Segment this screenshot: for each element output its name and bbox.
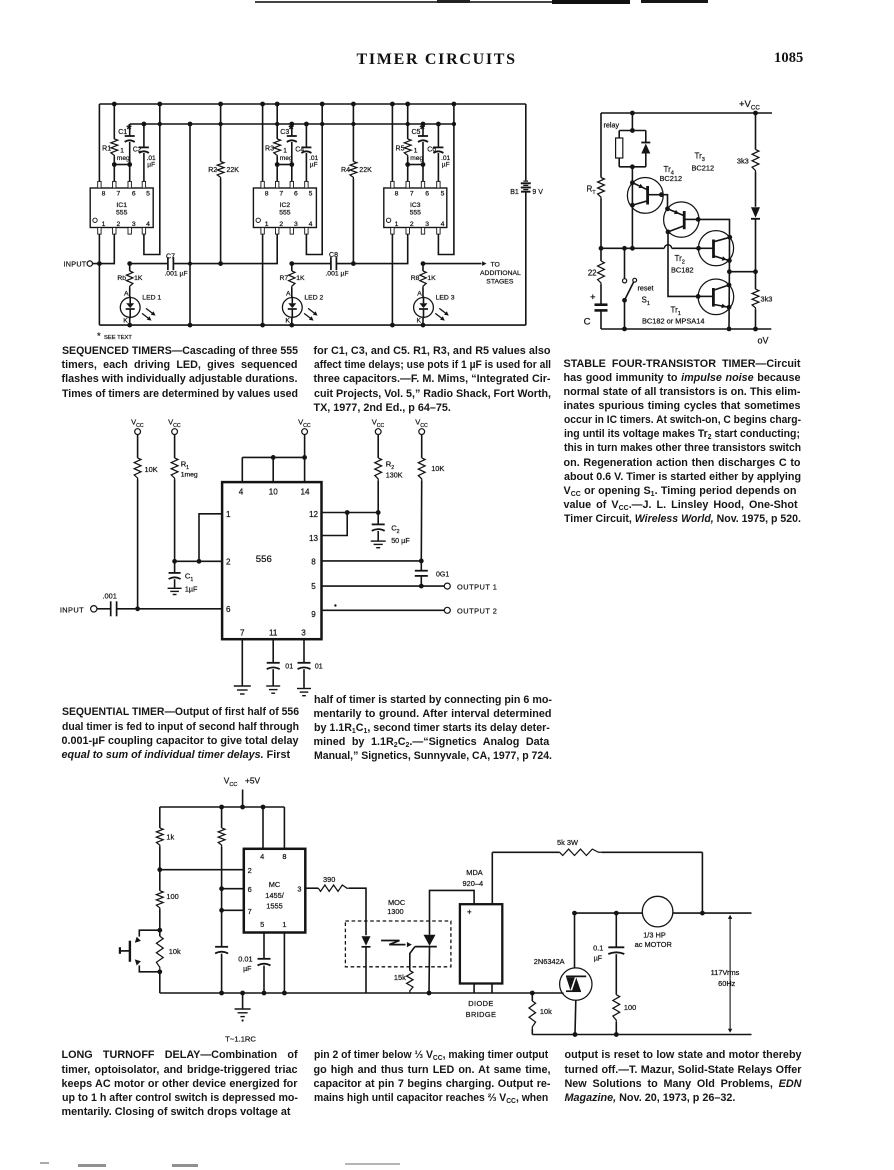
- schematic: sequential timer 556: [50, 410, 520, 700]
- svg-text:LED 1: LED 1: [142, 294, 161, 301]
- capacitor C6 .01 uF: [437, 124, 439, 147]
- wire output to additional stages: [423, 263, 482, 265]
- svg-text:MDA: MDA: [466, 868, 482, 877]
- svg-text:3: 3: [132, 221, 136, 228]
- resistor R1 1 meg: [113, 104, 115, 139]
- svg-text:100: 100: [624, 1003, 636, 1012]
- resistor R8 1K: [422, 264, 424, 271]
- svg-text:1: 1: [283, 148, 287, 155]
- svg-text:3: 3: [297, 885, 301, 894]
- svg-text:1µF: 1µF: [185, 585, 198, 594]
- LED LED 2: [291, 288, 293, 298]
- wire IC2 pin 8 to Vcc: [262, 104, 264, 181]
- svg-text:3k3: 3k3: [761, 295, 773, 304]
- svg-text:BC182: BC182: [671, 266, 694, 275]
- wire Tr2 collector-emitter column: [728, 237, 730, 271]
- wire Vcc top bus: [99, 103, 525, 105]
- schematic: stable four-transistor timer: [580, 95, 780, 350]
- svg-text:C2: C2: [133, 146, 142, 153]
- wire IC3 pin 1 to ground rail: [391, 234, 393, 325]
- svg-text:1K: 1K: [134, 275, 143, 282]
- svg-text:7: 7: [117, 190, 121, 197]
- wire left rail: [600, 113, 602, 178]
- svg-text:R1: R1: [181, 460, 189, 471]
- svg-text:ADDITIONAL: ADDITIONAL: [480, 270, 521, 277]
- svg-text:STAGES: STAGES: [486, 278, 514, 285]
- diode across relay: [645, 131, 647, 143]
- svg-text:1: 1: [120, 148, 124, 155]
- resistor 22: [598, 261, 605, 285]
- transistor Tr4 BC212: [627, 178, 663, 214]
- mark near pin 9: [334, 604, 336, 606]
- wire relay to base bus: [631, 167, 633, 249]
- caption long turnoff delay 2: [314, 1048, 551, 1105]
- svg-text:8: 8: [102, 190, 106, 197]
- resistor 1k (pin2 pullup, unlabeled): [221, 807, 223, 828]
- wire pin 7 to ground: [241, 639, 243, 685]
- svg-text:IC1: IC1: [116, 202, 127, 209]
- wire IC3 pin 8 to Vcc: [391, 104, 393, 181]
- motor line: [575, 912, 643, 914]
- schematic: sequenced timers: [55, 95, 560, 345]
- svg-text:INPUT: INPUT: [63, 260, 86, 269]
- svg-text:9: 9: [311, 610, 316, 619]
- capacitor C3 (timing): [291, 124, 293, 136]
- wire pin 8 to 10K: [322, 560, 422, 562]
- resistor R7 1K: [291, 264, 293, 271]
- svg-text:14: 14: [300, 488, 310, 497]
- wire top rail: [160, 806, 285, 808]
- page number 1085: [774, 50, 803, 67]
- capacitor C1 1uF: [174, 561, 176, 573]
- capacitor .01 on pin 3: [303, 639, 305, 663]
- svg-text:22: 22: [588, 269, 597, 278]
- svg-text:VCC: VCC: [131, 418, 144, 429]
- resistor R4 22K: [352, 104, 354, 162]
- svg-text:0.01: 0.01: [238, 955, 252, 964]
- caption sequenced timers right: [314, 344, 551, 415]
- wire pin 6 line: [222, 888, 244, 890]
- LED LED 1: [129, 288, 131, 298]
- svg-text:VCC: VCC: [372, 418, 385, 429]
- wire R1-C1 junction: [114, 164, 129, 166]
- wire Vcc stub: [242, 790, 244, 808]
- svg-text:13: 13: [309, 534, 319, 543]
- svg-text:3: 3: [294, 221, 298, 228]
- resistor 100 (snubber): [613, 995, 620, 1022]
- 555 timer IC3: [384, 188, 447, 228]
- svg-text:50 µF: 50 µF: [391, 536, 410, 545]
- resistor 100: [156, 891, 163, 909]
- svg-text:2: 2: [410, 221, 414, 228]
- svg-text:920–4: 920–4: [463, 879, 484, 888]
- svg-text:C: C: [584, 317, 591, 328]
- svg-text:11: 11: [269, 628, 278, 637]
- svg-text:IC2: IC2: [280, 202, 291, 209]
- svg-text:01: 01: [315, 664, 323, 671]
- svg-text:1/3 HP: 1/3 HP: [643, 931, 666, 940]
- svg-text:2: 2: [279, 221, 283, 228]
- svg-text:VCC: VCC: [415, 418, 428, 429]
- svg-text:555: 555: [116, 209, 128, 216]
- svg-text:C2: C2: [391, 524, 399, 535]
- optoisolator MOC1300 dashed box: [345, 921, 451, 967]
- svg-text:ac MOTOR: ac MOTOR: [635, 940, 672, 949]
- capacitor 0G1: [420, 561, 422, 571]
- diode on right rail: [751, 207, 760, 218]
- svg-text:555: 555: [279, 209, 291, 216]
- phototriac: [430, 890, 475, 934]
- svg-text:0G1: 0G1: [436, 572, 449, 579]
- diode bridge MDA920-4: [460, 904, 502, 983]
- resistor R3 1 meg: [276, 104, 278, 139]
- capacitor C8 .001 uF: [292, 263, 331, 265]
- svg-text:6: 6: [425, 190, 429, 197]
- resistor 15k (gate): [410, 947, 415, 971]
- svg-text:Tr2: Tr2: [675, 254, 685, 265]
- svg-text:Rb: Rb: [117, 275, 126, 282]
- wire pin 13 to pin 12: [322, 513, 348, 536]
- svg-text:relay: relay: [604, 121, 620, 130]
- svg-text:100: 100: [166, 892, 178, 901]
- scan artifact top edge: [255, 1, 552, 3]
- svg-text:9 V: 9 V: [532, 189, 543, 196]
- svg-text:2N6342A: 2N6342A: [534, 957, 565, 966]
- svg-text:01: 01: [285, 664, 293, 671]
- svg-text:K: K: [285, 318, 290, 325]
- svg-text:555: 555: [410, 209, 422, 216]
- schematic: long turnoff delay: [90, 770, 780, 1045]
- svg-text:R1: R1: [102, 146, 111, 153]
- 555 timer IC2: [253, 188, 316, 228]
- svg-text:3: 3: [425, 221, 429, 228]
- svg-text:7: 7: [248, 907, 252, 916]
- svg-text:390: 390: [323, 875, 335, 884]
- svg-text:OUTPUT 2: OUTPUT 2: [457, 607, 497, 616]
- svg-text:Tr1: Tr1: [671, 306, 681, 317]
- measurement arrow 117Vrms 60Hz: [729, 919, 731, 1030]
- svg-text:1455/: 1455/: [265, 891, 284, 900]
- svg-text:B1: B1: [510, 189, 519, 196]
- svg-text:oV: oV: [758, 336, 769, 346]
- svg-text:TO: TO: [491, 261, 500, 268]
- wire bottom right rail: [532, 1034, 751, 1036]
- svg-text:LED 2: LED 2: [304, 294, 323, 301]
- opto LED: [362, 936, 371, 946]
- svg-text:4: 4: [239, 488, 244, 497]
- resistor R2 22K: [220, 104, 222, 162]
- wire IC2 pin 4 to Vcc: [306, 104, 322, 255]
- svg-text:4: 4: [260, 852, 264, 861]
- wire Vcc to pins 4,10,14: [242, 456, 304, 458]
- svg-text:A: A: [286, 291, 291, 298]
- wire R5-C5 junction: [408, 164, 423, 166]
- svg-text:10k: 10k: [540, 1007, 552, 1016]
- resistor R2 130K: [377, 435, 379, 458]
- wire R3-C3 junction: [277, 164, 292, 166]
- coupling arrow: [381, 941, 405, 945]
- wire Tr3 base to Tr2 collector: [698, 219, 729, 237]
- svg-text:2: 2: [117, 221, 121, 228]
- wire IC1 pin 1 to ground rail: [98, 234, 100, 325]
- svg-text:IC3: IC3: [410, 202, 421, 209]
- capacitor C7 .001 uF: [130, 263, 168, 265]
- wire input to IC1 pin 2: [93, 234, 115, 264]
- svg-text:BRIDGE: BRIDGE: [466, 1010, 497, 1019]
- wire base bus (C / RT junction to Tr2 base): [601, 247, 664, 249]
- svg-text:meg: meg: [410, 155, 423, 162]
- resistor 390: [305, 887, 318, 889]
- svg-text:3: 3: [301, 628, 306, 637]
- svg-text:3k3: 3k3: [737, 157, 749, 166]
- svg-text:556: 556: [256, 554, 272, 565]
- wire IC2 pin 1 to ground rail: [262, 234, 264, 325]
- svg-text:DIODE: DIODE: [468, 999, 493, 1008]
- svg-text:6: 6: [294, 190, 298, 197]
- ground below C1: [168, 587, 182, 589]
- wire left rail: [159, 807, 161, 828]
- svg-text:7: 7: [410, 190, 414, 197]
- resistor 1k: [156, 828, 163, 847]
- svg-text:2: 2: [248, 866, 252, 875]
- svg-text:7: 7: [279, 190, 283, 197]
- svg-text:µF: µF: [243, 966, 251, 973]
- triac 2N6342A: [574, 913, 576, 968]
- svg-text:12: 12: [309, 510, 319, 519]
- wire IC1 pin 8 to Vcc: [98, 104, 100, 181]
- capacitor C2 .01 uF: [143, 124, 145, 147]
- svg-text:60Hz: 60Hz: [718, 979, 736, 988]
- svg-text:2: 2: [226, 558, 231, 567]
- svg-text:8: 8: [311, 558, 316, 567]
- svg-text:C7: C7: [166, 254, 175, 261]
- svg-text:.001: .001: [103, 592, 117, 601]
- svg-text:K: K: [123, 318, 128, 325]
- svg-text:22K: 22K: [359, 167, 372, 174]
- resistor RT: [598, 178, 605, 199]
- resistor Rb 1K: [129, 264, 131, 271]
- svg-text:6: 6: [248, 885, 252, 894]
- svg-text:µF: µF: [147, 162, 155, 169]
- 555 timer IC1: [90, 188, 153, 228]
- motor 1/3 HP: [642, 896, 673, 927]
- wire pin 12 to R2/C2: [322, 512, 379, 514]
- caption sequential timer right: [314, 693, 552, 764]
- wire pin 7 line: [222, 909, 244, 911]
- caption sequenced timers left: [62, 344, 298, 401]
- svg-text:8: 8: [282, 852, 286, 861]
- svg-text:T~1.1RC: T~1.1RC: [225, 1035, 256, 1044]
- svg-text:7: 7: [240, 628, 245, 637]
- wire IC1 pin 4 to Vcc: [144, 104, 160, 255]
- svg-text:SEE TEXT: SEE TEXT: [104, 335, 132, 341]
- svg-text:10: 10: [269, 488, 279, 497]
- svg-text:BC212: BC212: [660, 174, 683, 183]
- capacitor C4 .01 uF: [305, 124, 307, 147]
- svg-text:S1: S1: [642, 296, 650, 307]
- wire relay bottom: [619, 166, 646, 168]
- resistor 10K (input pullup): [137, 435, 139, 459]
- svg-text:reset: reset: [638, 284, 654, 293]
- resistor 3k3 upper: [752, 150, 759, 173]
- ground symbol: [242, 993, 244, 1009]
- LED LED 3: [422, 288, 424, 298]
- resistor 10K (output pullup): [421, 435, 423, 458]
- svg-text:1555: 1555: [266, 902, 282, 911]
- resistor R5 1 meg: [407, 104, 409, 139]
- svg-text:1: 1: [395, 221, 399, 228]
- svg-text:VCC: VCC: [298, 418, 311, 429]
- svg-text:1meg: 1meg: [181, 472, 198, 479]
- wire pin 5 to output 1: [322, 585, 445, 587]
- svg-text:C1: C1: [185, 572, 193, 583]
- wire Tr2 emitter to right rail: [729, 271, 755, 273]
- svg-text:1300: 1300: [387, 907, 403, 916]
- svg-text:INPUT: INPUT: [60, 605, 84, 614]
- svg-text:R4: R4: [341, 167, 350, 174]
- pushbutton switch: [139, 930, 160, 936]
- svg-text:8: 8: [265, 190, 269, 197]
- wire Tr3 collector to Tr1 base: [668, 232, 698, 297]
- capacitor 0.1uF: [615, 913, 617, 947]
- svg-text:10k: 10k: [169, 947, 181, 956]
- svg-text:6: 6: [132, 190, 136, 197]
- capacitor .01 on pin 11: [272, 639, 274, 663]
- capacitor .001 (input coupling): [97, 608, 111, 610]
- capacitor C (timing, polarized): [595, 303, 608, 306]
- svg-text:MOC: MOC: [388, 898, 406, 907]
- svg-text:LED 3: LED 3: [436, 294, 455, 301]
- resistor R1 1meg: [174, 435, 176, 459]
- transistor Tr3 BC212: [664, 202, 699, 237]
- svg-text:R2: R2: [208, 167, 217, 174]
- transistor Tr1 BC182 or MPSA14: [698, 279, 734, 315]
- svg-text:5: 5: [311, 582, 316, 591]
- svg-text:+5V: +5V: [245, 776, 261, 786]
- svg-text:1: 1: [282, 920, 286, 929]
- svg-text:meg: meg: [280, 155, 293, 162]
- caption long turnoff delay 1: [62, 1048, 298, 1119]
- svg-text:R2: R2: [386, 460, 394, 471]
- svg-text:BC212: BC212: [692, 164, 715, 173]
- svg-text:K: K: [417, 318, 422, 325]
- wire pin 1 drop: [283, 933, 285, 994]
- wire right rail: [755, 113, 757, 150]
- wire Tr4 base to Tr3 emitter: [661, 195, 667, 209]
- svg-text:OUTPUT 1: OUTPUT 1: [457, 582, 497, 591]
- svg-text:µF: µF: [310, 162, 318, 169]
- svg-text:130K: 130K: [386, 471, 403, 480]
- wire pins 4,8 to rail: [262, 807, 264, 849]
- svg-text:117Vrms: 117Vrms: [711, 968, 740, 977]
- svg-text:5k 3W: 5k 3W: [557, 838, 578, 847]
- svg-text:1k: 1k: [166, 833, 174, 842]
- scan artifact bottom edge: [40, 1162, 49, 1164]
- ground below C2: [371, 540, 386, 542]
- timer MC1455/1555 IC: [244, 849, 305, 933]
- svg-text:RT: RT: [587, 185, 597, 196]
- svg-text:C4: C4: [295, 146, 304, 153]
- capacitor C5 (timing): [422, 124, 424, 136]
- svg-text:8: 8: [395, 190, 399, 197]
- svg-text:meg: meg: [117, 155, 130, 162]
- svg-text:µF: µF: [594, 956, 602, 963]
- svg-text:5: 5: [260, 920, 264, 929]
- svg-text:C6: C6: [427, 146, 436, 153]
- svg-text:22K: 22K: [227, 167, 240, 174]
- svg-text:*: *: [97, 331, 101, 342]
- svg-text:1K: 1K: [427, 275, 436, 282]
- svg-text:5: 5: [309, 190, 313, 197]
- capacitor C2 50uF: [377, 513, 379, 525]
- wire bottom ground rail: [99, 324, 525, 326]
- wire R1/C1 to pin 2: [175, 560, 223, 562]
- svg-text:µF: µF: [442, 162, 450, 169]
- svg-text:C8: C8: [329, 252, 338, 259]
- wire pin 9 to output 2: [322, 609, 445, 611]
- svg-text:1: 1: [226, 510, 231, 519]
- svg-text:4: 4: [146, 221, 150, 228]
- wire Vcc top bus: [601, 112, 772, 114]
- svg-text:15k: 15k: [394, 973, 406, 982]
- svg-text:MC: MC: [269, 880, 281, 889]
- wire pin 1 loop: [199, 514, 222, 562]
- svg-text:0.1: 0.1: [593, 944, 603, 953]
- wire input to pin 6: [117, 608, 223, 610]
- svg-text:R7: R7: [279, 275, 288, 282]
- svg-text:1K: 1K: [296, 275, 305, 282]
- wire IC3 pin 4 to Vcc: [438, 104, 454, 255]
- caption four-transistor timer: [564, 357, 801, 527]
- svg-text:1: 1: [265, 221, 269, 228]
- svg-text:1: 1: [414, 148, 418, 155]
- svg-text:1: 1: [102, 221, 106, 228]
- svg-text:5: 5: [146, 190, 150, 197]
- svg-text:R3: R3: [265, 146, 274, 153]
- caption sequential timer left: [62, 705, 299, 762]
- svg-text:Tr3: Tr3: [695, 152, 705, 163]
- wire 0V rail: [601, 328, 771, 330]
- svg-text:+VCC: +VCC: [739, 99, 760, 111]
- wire pin 2 node line: [160, 869, 244, 871]
- wire bottom rail: [160, 992, 563, 994]
- header title: [357, 51, 657, 69]
- svg-text:4: 4: [309, 221, 313, 228]
- wire ground bus to bottom rail: [189, 124, 191, 325]
- svg-text:+: +: [467, 908, 472, 917]
- svg-text:10K: 10K: [145, 465, 158, 474]
- resistor 10k: [156, 936, 163, 969]
- battery B1 9V: [525, 104, 527, 180]
- svg-text:BC182 or MPSA14: BC182 or MPSA14: [642, 317, 704, 326]
- svg-text:.001 µF: .001 µF: [325, 271, 348, 278]
- svg-text:A: A: [417, 291, 422, 298]
- svg-text:+: +: [590, 292, 596, 303]
- resistor 10k (gate): [529, 1001, 536, 1029]
- svg-text:VCC: VCC: [168, 418, 181, 429]
- dual timer 556 IC: [222, 482, 321, 639]
- capacitor (timing, pins 6-7): [221, 910, 223, 947]
- svg-text:A: A: [124, 291, 129, 298]
- svg-text:4: 4: [441, 221, 445, 228]
- caption long turnoff delay 3: [565, 1048, 802, 1105]
- svg-text:VCC: VCC: [224, 776, 238, 788]
- switch S1 reset: [624, 248, 626, 278]
- svg-text:6: 6: [226, 605, 231, 614]
- svg-text:R5: R5: [396, 146, 405, 153]
- svg-text:10K: 10K: [431, 464, 444, 473]
- transistor Tr2 BC182: [698, 231, 733, 266]
